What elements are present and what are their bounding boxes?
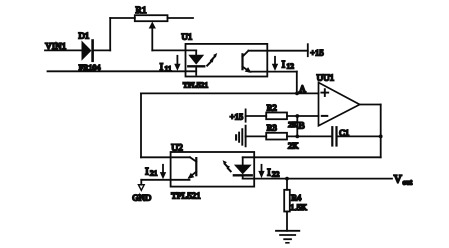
svg-text:I: I <box>282 60 285 71</box>
current label I21 <box>145 165 166 180</box>
wire U1 emitter to node A <box>249 72 297 94</box>
junction R4/Vout <box>285 177 289 181</box>
wire U2 emitter to GND <box>141 180 189 185</box>
current label I12 <box>272 57 294 71</box>
wire to R4 <box>286 179 288 190</box>
wire D1 cathode to corner <box>94 49 110 51</box>
svg-text:+15: +15 <box>310 47 323 57</box>
ground symbol (R3 left) <box>236 126 246 147</box>
ground (bottom) <box>276 231 299 243</box>
wire U2 LED cathode to Vout <box>243 178 392 180</box>
wire feedback bottom to U2 LED anode <box>243 156 381 158</box>
svg-text:TPL521: TPL521 <box>183 80 208 89</box>
capacitor C1 <box>332 127 336 145</box>
svg-text:I: I <box>160 62 163 73</box>
LED of U2 <box>234 157 252 178</box>
svg-text:12: 12 <box>287 62 295 71</box>
wire left vertical A to U2 collector <box>140 93 142 157</box>
svg-text:TPL521: TPL521 <box>171 191 200 201</box>
svg-text:I: I <box>267 168 270 179</box>
op-amp UU1 <box>319 83 360 126</box>
wire corner up to R1 <box>109 18 111 50</box>
svg-text:I: I <box>145 167 148 178</box>
wire node A line <box>141 92 319 94</box>
svg-text:D1: D1 <box>79 30 90 40</box>
wire output vertical <box>380 105 382 158</box>
svg-text:A: A <box>299 85 306 95</box>
+15 terminal (middle) <box>230 109 246 121</box>
svg-text:out: out <box>403 178 413 186</box>
phototransistor of U2 <box>188 157 197 179</box>
+15 terminal (top) <box>308 44 324 57</box>
wire to R1 left <box>110 17 135 19</box>
R1 wiper arrow <box>149 22 156 51</box>
svg-text:V: V <box>394 174 402 186</box>
diode D1 <box>82 41 93 61</box>
wire R4 to ground <box>286 212 288 231</box>
LED of U1 <box>188 50 204 74</box>
svg-text:R2: R2 <box>267 102 277 112</box>
wire R1 right <box>168 17 194 19</box>
svg-text:11: 11 <box>165 64 172 73</box>
optocoupler U1 box <box>186 44 268 77</box>
svg-text:2K: 2K <box>288 140 299 150</box>
resistor R4 <box>284 190 290 212</box>
wire R3 to C1 <box>287 135 331 137</box>
resistor R2 <box>266 113 287 120</box>
optocoupler U2 box <box>171 152 255 187</box>
wire R2 to node B <box>287 115 319 117</box>
potentiometer R1 body <box>135 15 168 21</box>
wire ground to R3 <box>246 135 267 137</box>
wire +15 to R2 <box>246 115 267 117</box>
svg-text:R4: R4 <box>291 192 302 202</box>
junction B/R3 <box>295 135 299 139</box>
junction C1/output <box>379 135 383 139</box>
svg-text:1.5K: 1.5K <box>290 203 307 212</box>
wire C1 to output vertical <box>338 135 381 137</box>
phototransistor of U1 <box>243 51 252 73</box>
svg-text:22: 22 <box>272 170 280 179</box>
svg-text:U2: U2 <box>171 143 183 153</box>
svg-text:UU1: UU1 <box>317 72 335 82</box>
wire op-amp output <box>360 104 381 106</box>
wire U1 collector to +15 <box>248 50 307 52</box>
svg-text:GND: GND <box>132 193 151 203</box>
light emission arrows of U1 <box>207 53 217 66</box>
wire wiper to U1 LED anode <box>152 49 196 51</box>
svg-text:21: 21 <box>150 169 158 178</box>
wire lower input to U1 LED cathode <box>48 70 197 72</box>
resistor R3 <box>266 133 287 140</box>
current label I11 <box>160 56 181 73</box>
light emission arrows of U2 <box>223 160 231 171</box>
wire node B vertical <box>296 116 298 136</box>
label Vout <box>394 174 413 187</box>
svg-text:B: B <box>298 122 304 132</box>
wire VIN1 to D1 anode <box>45 49 82 51</box>
svg-text:U1: U1 <box>182 31 193 41</box>
GND open arrow <box>138 185 144 191</box>
svg-text:R1: R1 <box>136 6 147 16</box>
current label I22 <box>258 165 279 179</box>
junction R2/B <box>295 114 299 118</box>
svg-text:+15: +15 <box>230 111 243 121</box>
junction at node A <box>295 92 299 96</box>
wire to U2 collector <box>141 156 190 158</box>
svg-text:R3: R3 <box>267 123 277 133</box>
